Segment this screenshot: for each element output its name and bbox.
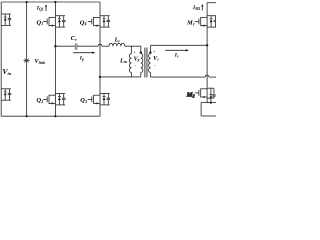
svg-text:Ip: Ip xyxy=(79,56,84,62)
inductor Lm (magnetizing, humps bulge left) xyxy=(129,54,131,73)
node: M1/M2 midpoint xyxy=(206,44,208,46)
wire: secondary bottom lead xyxy=(150,73,152,78)
wire: primary bottom rail xyxy=(1,115,100,117)
current arrow I_Q1 xyxy=(36,4,47,11)
inductor Lr (4 humps) xyxy=(109,43,125,46)
wire: node A to Cr (resonant tank wire) xyxy=(55,45,75,47)
wire: M2 diode lead to output box xyxy=(210,98,212,102)
svg-text:IQ1: IQ1 xyxy=(36,6,44,12)
wire hop over leg M1/M2 xyxy=(205,75,209,77)
node marker: asterisk on V_link line xyxy=(24,59,30,63)
transformer secondary polarity dot xyxy=(149,51,151,53)
wire: Lm bottom lead xyxy=(130,73,132,77)
wire: primary top rail xyxy=(1,1,100,3)
svg-text:+: + xyxy=(153,50,155,54)
wire: secondary top rail xyxy=(207,2,216,4)
wire: leg Q1/Q2 xyxy=(54,2,56,116)
svg-text:Q4: Q4 xyxy=(80,19,87,26)
transformer secondary winding xyxy=(149,54,151,73)
transformer primary winding xyxy=(141,54,143,73)
wire: secondary bottom to right edge xyxy=(209,76,216,78)
current arrow I_s xyxy=(165,49,189,59)
wire: DC link vertical line xyxy=(26,2,28,116)
transistor Q2 xyxy=(37,94,66,105)
svg-text:Lm: Lm xyxy=(119,57,127,64)
wire hop over leg Q4/Q3 xyxy=(98,44,102,46)
current arrow I_p xyxy=(73,52,95,62)
svg-text:Q1: Q1 xyxy=(37,19,44,26)
transistor M2 (cell with low diode/cap) xyxy=(186,88,216,98)
transformer primary polarity dot xyxy=(140,51,142,53)
wire: Cr to hop-over xyxy=(77,45,98,47)
wire: output box top xyxy=(201,102,216,104)
svg-text:IM1: IM1 xyxy=(192,5,201,11)
wire: hop to Lr xyxy=(102,45,109,47)
svg-text:Vs: Vs xyxy=(153,56,159,62)
transistor Q1 (upper-left cropped cell at image edge) xyxy=(1,14,11,25)
transformer core lines xyxy=(145,48,147,78)
node: bottom rail / V_link xyxy=(26,115,28,117)
svg-text:Cr: Cr xyxy=(71,35,77,42)
capacitor Cr plates (gray) xyxy=(75,43,77,50)
svg-text:+: + xyxy=(134,50,136,54)
node B: Q4/Q3 midpoint xyxy=(99,76,101,78)
wire: leg Q4/Q3 xyxy=(99,2,101,116)
wire: output box left side xyxy=(200,103,202,116)
wire: secondary top to M-leg junction xyxy=(151,44,208,46)
svg-text:M2: M2 xyxy=(186,92,195,99)
wire: leg M1/M2 xyxy=(206,3,208,103)
current arrow I_M1 xyxy=(192,4,203,12)
wire: output box bottom xyxy=(201,115,216,117)
svg-text:Is: Is xyxy=(174,53,179,59)
wire: secondary bottom toward output xyxy=(151,76,205,78)
wire: primary winding bottom lead xyxy=(140,73,142,77)
wire: Lr to primary winding top, Lm tap corner xyxy=(125,46,141,52)
transistor Q2 (lower-left cropped cell at image edge) xyxy=(1,89,11,100)
svg-text:M1: M1 xyxy=(186,20,195,27)
node: top rail / V_link xyxy=(26,1,28,3)
svg-text:Lr: Lr xyxy=(114,37,121,44)
transistor Q1 xyxy=(37,16,66,27)
wire: left input leg (cropped at image edge) xyxy=(0,2,2,116)
transistor Q3 xyxy=(80,94,110,105)
wire: secondary top lead xyxy=(150,45,152,53)
svg-text:−: − xyxy=(134,64,136,68)
node: bottom rail / Q2 leg xyxy=(54,115,56,117)
svg-text:Q2: Q2 xyxy=(37,97,44,104)
node: M2 diode lead / box top xyxy=(210,102,212,104)
svg-text:Vlink: Vlink xyxy=(34,58,45,65)
node A: Q1/Q2 midpoint xyxy=(54,45,56,47)
wire: primary return to leg Q4/Q3 xyxy=(100,76,141,78)
transistor Q4 xyxy=(80,16,110,27)
wire: Lm top lead xyxy=(130,46,132,53)
svg-text:−: − xyxy=(154,63,156,67)
transistor M1 xyxy=(186,16,217,27)
svg-text:Q3: Q3 xyxy=(80,97,87,104)
svg-text:Vp: Vp xyxy=(134,56,140,62)
node: top rail / Q1 leg xyxy=(54,1,56,3)
